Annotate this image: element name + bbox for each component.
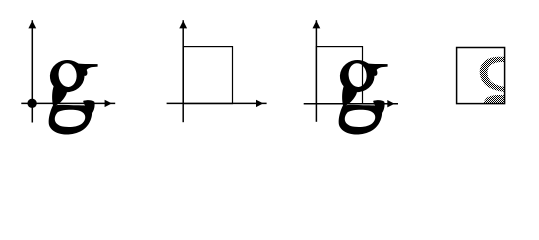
diagram 4 bitmap box	[457, 48, 505, 104]
diagram 2 bounding box rectangle	[183, 47, 232, 104]
diagram 1 glyph g	[49, 60, 98, 135]
diagram 2 y-axis	[179, 20, 187, 122]
diagram 3 glyph g	[339, 60, 388, 135]
diagram 3 x-axis	[304, 100, 398, 107]
diagram 3 bounding box rectangle	[316, 47, 362, 104]
diagram 1 y-axis	[28, 20, 36, 122]
diagram 1 origin dot	[27, 99, 36, 108]
diagram 1 x-axis	[21, 100, 115, 107]
diagram 4 dithered glyph g	[480, 57, 505, 104]
diagram 2 x-axis	[167, 100, 267, 107]
diagram 3 y-axis	[313, 20, 321, 122]
